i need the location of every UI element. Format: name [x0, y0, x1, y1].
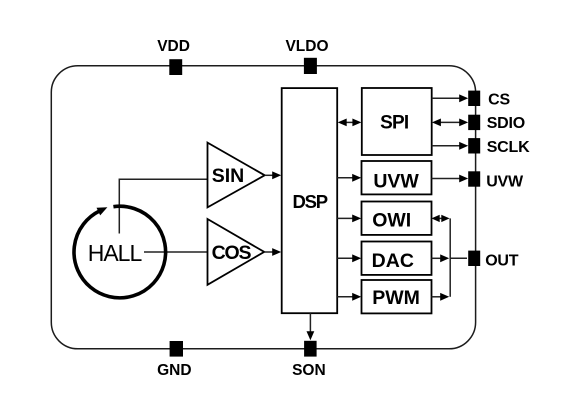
svg-text:SIN: SIN — [212, 165, 245, 187]
arrow SIN to DSP — [265, 171, 282, 179]
pin VLDO — [304, 58, 317, 74]
arrow SPI to CS pin — [432, 94, 469, 102]
arrow DSP to OWI — [337, 215, 361, 223]
svg-text:HALL: HALL — [88, 240, 143, 266]
wire HALL to COS input — [144, 251, 208, 253]
svg-text:DAC: DAC — [372, 250, 414, 272]
block PWM — [362, 280, 432, 313]
pin UVW — [468, 171, 480, 186]
arrow DSP to PWM — [337, 293, 361, 301]
pin VDD — [169, 59, 182, 75]
svg-text:SCLK: SCLK — [487, 139, 530, 156]
svg-text:VDD: VDD — [157, 38, 190, 55]
block SPI — [362, 88, 432, 155]
double arrow DSP to SPI — [338, 119, 362, 127]
svg-text:COS: COS — [212, 242, 252, 264]
pin CS — [468, 91, 480, 106]
svg-text:SON: SON — [292, 362, 326, 379]
svg-text:UVW: UVW — [486, 174, 524, 191]
chip outline — [51, 66, 475, 349]
double arrow SPI to SDIO pin — [432, 119, 468, 127]
pin SCLK — [468, 138, 480, 153]
svg-text:UVW: UVW — [373, 171, 419, 193]
arrow DAC to OUT bus — [432, 254, 450, 262]
wire OUT bus — [450, 218, 467, 296]
arrow UVW block to UVW pin — [432, 175, 469, 183]
wire HALL to SIN input — [119, 179, 207, 233]
pin SDIO — [468, 115, 480, 130]
double arrow OWI to OUT bus — [431, 215, 449, 222]
svg-text:SDIO: SDIO — [487, 115, 525, 132]
pin OUT — [468, 251, 480, 266]
pin SON — [304, 341, 317, 357]
arrow COS to DSP — [264, 248, 281, 256]
block UVW — [362, 161, 432, 194]
svg-text:DSP: DSP — [292, 191, 327, 212]
hall sensor circle with rotation arrow — [74, 206, 166, 298]
svg-text:OWI: OWI — [372, 210, 411, 232]
svg-text:GND: GND — [157, 362, 191, 379]
arrow DSP to UVW — [337, 174, 361, 182]
arrow PWM to OUT bus — [432, 293, 450, 301]
svg-text:PWM: PWM — [372, 287, 420, 309]
amplifier COS — [208, 219, 265, 285]
arrow DSP to DAC — [337, 254, 361, 262]
arrow SPI to SCLK pin — [432, 142, 469, 150]
block OWI — [362, 202, 432, 235]
pin GND — [170, 341, 183, 357]
svg-text:VLDO: VLDO — [285, 38, 328, 55]
block DAC — [362, 242, 432, 275]
block DSP — [282, 88, 338, 313]
svg-text:CS: CS — [488, 92, 510, 109]
arrow DSP to SON pin — [307, 313, 315, 340]
amplifier SIN — [208, 143, 265, 208]
svg-text:SPI: SPI — [380, 112, 409, 133]
svg-text:OUT: OUT — [485, 253, 519, 270]
